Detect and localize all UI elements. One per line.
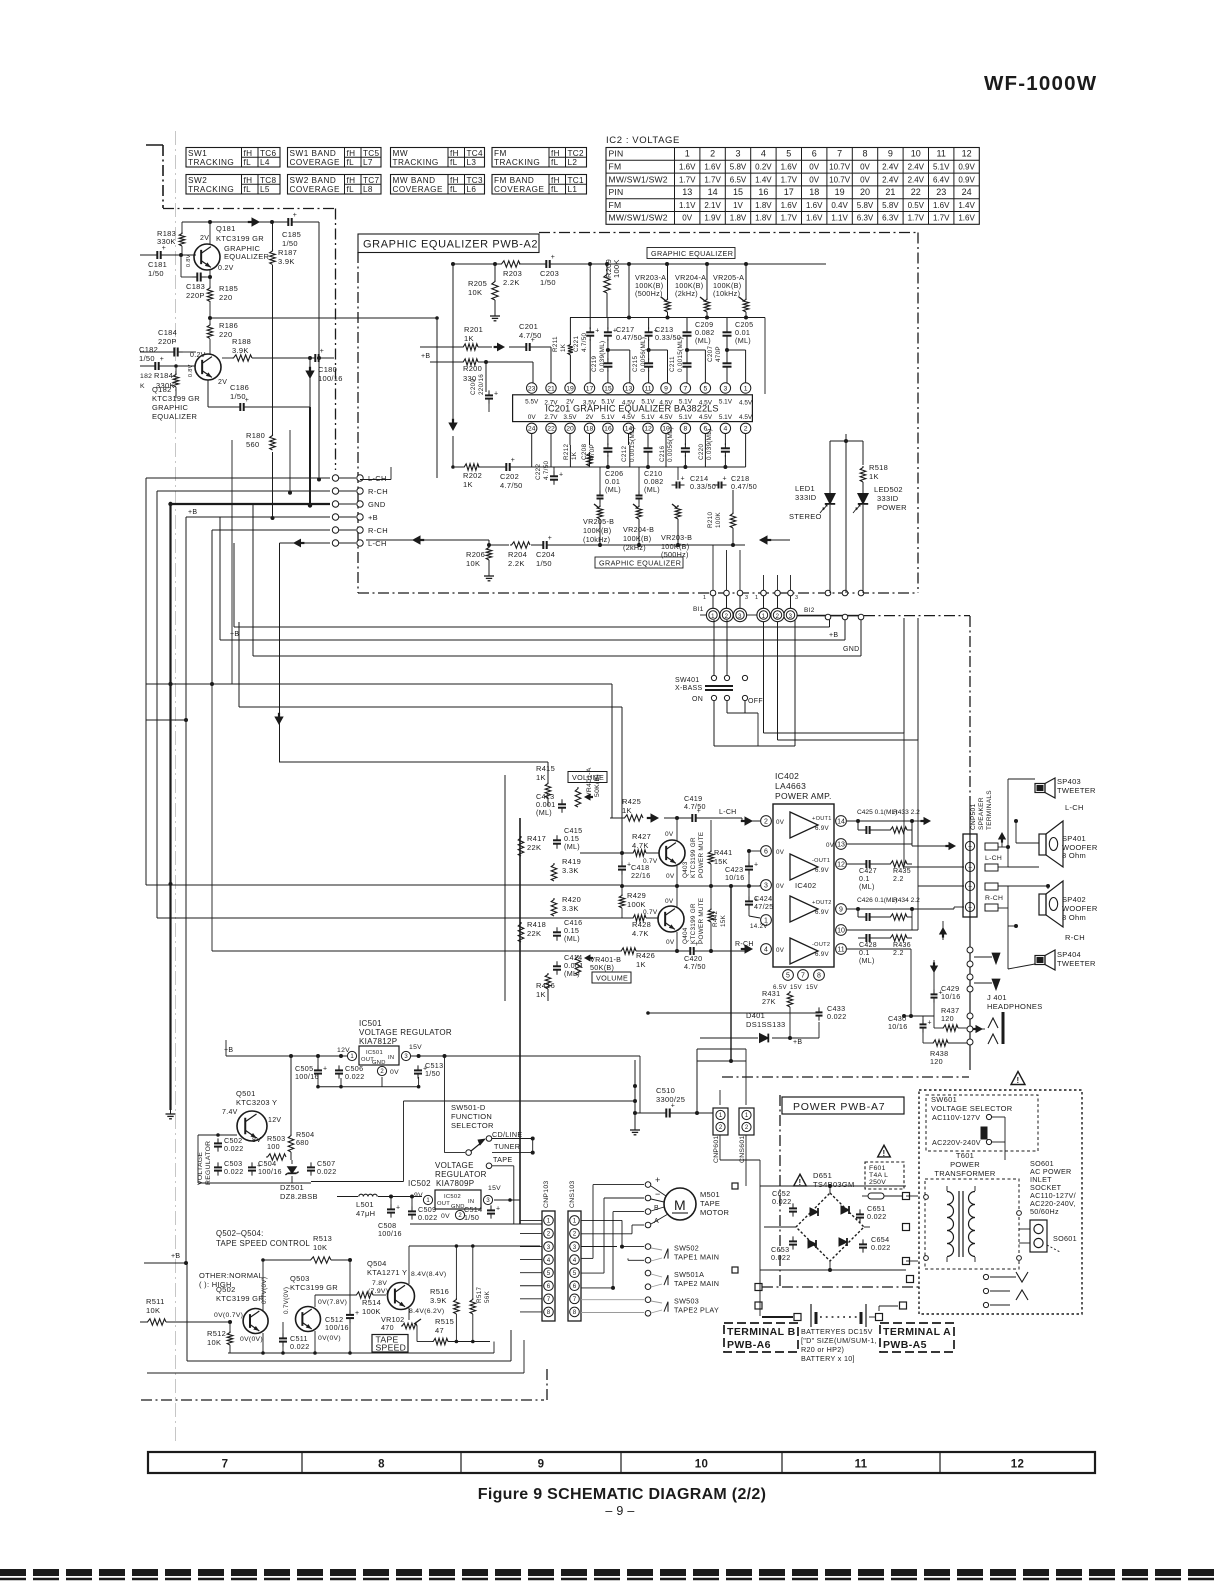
svg-text:0.5V: 0.5V <box>908 201 925 210</box>
fuse labels L-CH <box>985 843 1002 871</box>
capacitor C433 <box>816 1004 847 1021</box>
svg-text:24: 24 <box>962 187 972 197</box>
IC402 pin 9 <box>836 904 858 915</box>
svg-text:(10kHz): (10kHz) <box>583 535 610 544</box>
svg-text:0V: 0V <box>665 898 674 905</box>
svg-text:21: 21 <box>547 385 555 392</box>
resistor R188 <box>222 337 312 361</box>
capacitor C415 <box>553 826 582 851</box>
svg-text:4: 4 <box>573 1257 577 1264</box>
svg-text:+B: +B <box>793 1039 802 1046</box>
svg-text:BI2: BI2 <box>804 607 815 614</box>
wire bus h R-CH 2 <box>212 529 330 531</box>
wire bus h L-CH 2 <box>280 539 331 546</box>
svg-text:0V: 0V <box>665 831 674 838</box>
svg-text:1.8V: 1.8V <box>755 214 772 223</box>
resistor R426 <box>610 948 686 969</box>
svg-text:SW503: SW503 <box>674 1297 699 1306</box>
label AC110V-127V <box>932 1113 992 1122</box>
arrow down x279 <box>275 713 283 724</box>
svg-text:fH: fH <box>551 149 560 158</box>
svg-text:EQUALIZER: EQUALIZER <box>152 412 197 421</box>
svg-text:1.1V: 1.1V <box>831 214 848 223</box>
svg-text:+: + <box>320 348 324 355</box>
capacitor C180 <box>310 348 342 383</box>
svg-text:0V(0V): 0V(0V) <box>240 1336 263 1343</box>
wire L-CH arrow line <box>366 539 489 541</box>
IC201 bottom pin numbers <box>527 423 751 433</box>
svg-text:fL: fL <box>450 158 458 167</box>
svg-text:1: 1 <box>703 595 706 601</box>
connector CNP103 <box>542 1181 555 1322</box>
wire pin1 col <box>745 350 747 383</box>
svg-text:5.8V: 5.8V <box>882 201 899 210</box>
svg-text:TAPE: TAPE <box>700 1199 720 1208</box>
svg-text:R425: R425 <box>622 797 641 806</box>
svg-text:100/16: 100/16 <box>325 1323 349 1332</box>
svg-text:6.5V: 6.5V <box>730 175 747 184</box>
capacitor C203 <box>540 254 559 287</box>
svg-text:0.022: 0.022 <box>772 1197 792 1206</box>
svg-text:+: + <box>531 337 535 344</box>
svg-text:0.33/50: 0.33/50 <box>690 482 716 491</box>
svg-text:1.8V: 1.8V <box>755 201 772 210</box>
svg-text:0.47/50: 0.47/50 <box>731 482 757 491</box>
svg-text:50K(B): 50K(B) <box>594 774 601 797</box>
LED LED1 333ID STEREO <box>789 484 835 593</box>
svg-text:GND: GND <box>451 1204 465 1210</box>
svg-text:5: 5 <box>786 973 790 980</box>
wire sw601 leads <box>992 1117 1005 1160</box>
svg-text:2.1V: 2.1V <box>704 201 721 210</box>
resistor R185 <box>207 277 238 320</box>
svg-text:R184: R184 <box>154 371 173 380</box>
wire speaker mesh R <box>998 884 1050 969</box>
IC U402 LA4663 body <box>773 771 834 967</box>
svg-text:R185: R185 <box>219 284 238 293</box>
svg-text:1: 1 <box>711 614 715 620</box>
svg-text:R205: R205 <box>468 279 487 288</box>
svg-text:C202: C202 <box>500 472 519 481</box>
svg-text:L8: L8 <box>363 185 373 194</box>
label AC220V-240V <box>932 1127 992 1147</box>
svg-text:0.022: 0.022 <box>224 1167 244 1176</box>
svg-text:KTC3199 GR: KTC3199 GR <box>216 1294 264 1303</box>
capacitor C429 <box>931 984 961 1028</box>
wire J401 column <box>969 800 971 1070</box>
resistor R203 <box>500 261 522 287</box>
wire dash-dot right of BI2 <box>864 615 970 617</box>
svg-text:TRACKING: TRACKING <box>188 185 234 194</box>
svg-text:CNS601: CNS601 <box>739 1136 746 1164</box>
svg-text:R442: R442 <box>712 911 719 927</box>
svg-text:5.1V: 5.1V <box>719 414 733 421</box>
wire sw feeds <box>581 1220 644 1260</box>
socket SO601 <box>1030 1220 1077 1252</box>
svg-text:50K(B): 50K(B) <box>590 963 614 972</box>
svg-text:0V(7.8V): 0V(7.8V) <box>318 1299 347 1306</box>
switch SW501-D <box>445 1056 494 1169</box>
svg-text:L6: L6 <box>467 185 477 194</box>
svg-text:fL: fL <box>551 185 559 194</box>
svg-text:J 401: J 401 <box>987 993 1007 1002</box>
label GRAPHIC EQUALIZER (top) <box>647 248 735 259</box>
svg-text:0.022: 0.022 <box>345 1072 365 1081</box>
svg-text:+B: +B <box>368 513 378 522</box>
svg-text:+: + <box>293 212 297 219</box>
svg-text:6.9V: 6.9V <box>815 867 830 874</box>
svg-text:2.2K: 2.2K <box>508 559 525 568</box>
svg-text:2.2: 2.2 <box>893 950 904 957</box>
svg-text:R418: R418 <box>527 920 546 929</box>
svg-text:-OUT1: -OUT1 <box>812 858 830 864</box>
wire power top lines <box>697 1049 746 1113</box>
svg-text:0.4V: 0.4V <box>831 201 848 210</box>
svg-text:0V: 0V <box>682 214 692 223</box>
svg-text:L-CH: L-CH <box>368 539 387 548</box>
svg-text:R200: R200 <box>463 364 482 373</box>
svg-text:3: 3 <box>573 1244 577 1251</box>
svg-text:R206: R206 <box>466 550 485 559</box>
svg-text:10: 10 <box>911 149 921 159</box>
svg-text:COVERAGE: COVERAGE <box>290 185 340 194</box>
capacitor C184 <box>140 328 196 357</box>
svg-text:C216: C216 <box>659 446 666 462</box>
svg-text:15: 15 <box>733 187 743 197</box>
resistor R512 <box>207 1320 233 1353</box>
wire vertical x437 down <box>435 316 439 478</box>
svg-text:DZ8.2BSB: DZ8.2BSB <box>280 1192 318 1201</box>
svg-text:TUNER: TUNER <box>494 1142 520 1151</box>
label IC502 block <box>408 1161 487 1188</box>
svg-text:KTC3199 GR: KTC3199 GR <box>690 903 697 944</box>
svg-text:!: ! <box>1017 1076 1020 1085</box>
svg-text:R518: R518 <box>869 463 888 472</box>
svg-text:KTC3199 GR: KTC3199 GR <box>290 1283 338 1292</box>
wire dash-dot boundary horizontal <box>163 208 336 210</box>
svg-text:+: + <box>697 808 701 815</box>
svg-text:15: 15 <box>604 385 612 392</box>
resistor R210 <box>707 490 736 545</box>
svg-text:12: 12 <box>837 862 845 869</box>
transistor Q181 <box>186 222 269 277</box>
capacitor C423 <box>725 849 760 886</box>
svg-text:C220: C220 <box>698 444 705 460</box>
wire gnd rail y1101 <box>311 1077 635 1182</box>
label T601 transformer <box>934 1151 995 1178</box>
svg-text:8 Ohm: 8 Ohm <box>1062 913 1086 922</box>
capacitor C210 <box>636 467 664 505</box>
wire bus h R-CH <box>157 490 330 492</box>
svg-text:0V: 0V <box>528 414 537 421</box>
wire long h y1056 <box>520 1056 640 1113</box>
wire bottom rail y1373 <box>147 1340 524 1373</box>
capacitor C211 <box>669 337 705 383</box>
svg-text:fH: fH <box>551 176 560 185</box>
svg-text:5.1V: 5.1V <box>601 414 615 421</box>
warning triangle D651 <box>794 1174 807 1187</box>
svg-text:fH: fH <box>244 149 253 158</box>
svg-text:3.5V: 3.5V <box>583 400 597 407</box>
svg-text:R188: R188 <box>232 337 251 346</box>
svg-text:+B: +B <box>421 353 430 360</box>
svg-text:fH: fH <box>244 176 253 185</box>
resistor R431 <box>762 989 793 1007</box>
svg-text:10K: 10K <box>146 1306 160 1315</box>
svg-text:R201: R201 <box>464 325 483 334</box>
zone reference band <box>148 1452 1095 1473</box>
svg-text:3.9K: 3.9K <box>232 346 249 355</box>
svg-text:fL: fL <box>347 158 355 167</box>
svg-text:!: ! <box>799 1178 802 1187</box>
switch SW401 X-BASS <box>675 675 763 705</box>
svg-text:0V: 0V <box>809 163 819 172</box>
svg-text:1.6V: 1.6V <box>933 201 950 210</box>
svg-text:0V: 0V <box>441 1213 450 1220</box>
wire tape cluster rails <box>228 1342 494 1355</box>
svg-text:6: 6 <box>764 849 768 856</box>
svg-text:0.7V(0V): 0.7V(0V) <box>283 1287 290 1314</box>
label Q502-Q504 control <box>216 1229 310 1248</box>
svg-text:5.1V: 5.1V <box>679 414 693 421</box>
svg-text:REGULATOR: REGULATOR <box>435 1170 487 1179</box>
svg-text:18: 18 <box>809 187 819 197</box>
capacitor C222 <box>535 460 563 484</box>
svg-text:1.7V: 1.7V <box>679 175 696 184</box>
capacitor C512 <box>325 1260 359 1353</box>
svg-text:TERMINAL B: TERMINAL B <box>727 1326 796 1338</box>
svg-text:4.7/50: 4.7/50 <box>500 481 523 490</box>
svg-text:TS4B03GM: TS4B03GM <box>813 1180 855 1189</box>
svg-text:1.6V: 1.6V <box>781 201 798 210</box>
svg-text:4: 4 <box>547 1257 551 1264</box>
svg-text:12V: 12V <box>337 1047 350 1054</box>
svg-text:BI1: BI1 <box>693 606 704 613</box>
svg-text:14: 14 <box>708 187 718 197</box>
svg-text:(ML): (ML) <box>564 969 580 978</box>
svg-text:KIA7812P: KIA7812P <box>359 1037 397 1046</box>
svg-text:Q502–Q504:: Q502–Q504: <box>216 1229 264 1238</box>
svg-text:PWB-A5: PWB-A5 <box>883 1339 927 1351</box>
svg-text:TAPE2 MAIN: TAPE2 MAIN <box>674 1279 719 1288</box>
wire GE top bus <box>451 262 826 266</box>
svg-text:100/16: 100/16 <box>258 1167 282 1176</box>
wire bus h L-CH <box>146 467 391 480</box>
table MW tracking <box>391 148 485 168</box>
svg-text:330K: 330K <box>156 381 175 390</box>
svg-text:1.1V: 1.1V <box>679 201 696 210</box>
svg-text:+: + <box>754 896 758 903</box>
svg-text:50/60Hz: 50/60Hz <box>1030 1207 1059 1216</box>
svg-text:R419: R419 <box>562 857 581 866</box>
wire sel to amp <box>519 1014 521 1224</box>
svg-text:(10kHz): (10kHz) <box>713 289 740 298</box>
svg-text:6.9V: 6.9V <box>815 825 830 832</box>
svg-text:CNS103: CNS103 <box>569 1181 576 1209</box>
svg-text:0.022: 0.022 <box>317 1167 337 1176</box>
svg-text:14: 14 <box>837 819 845 826</box>
op-amp A2 <box>790 854 830 880</box>
svg-text:(ML): (ML) <box>859 884 875 891</box>
capacitor C213 <box>645 318 681 361</box>
capacitor C209 <box>683 318 715 361</box>
svg-text:3: 3 <box>789 614 793 620</box>
capacitor C186 <box>208 380 310 411</box>
svg-text:GND: GND <box>372 1060 386 1066</box>
svg-text:C180: C180 <box>318 365 337 374</box>
label 0.7V(0V) a <box>261 1277 268 1304</box>
resistor R513 <box>261 1234 352 1312</box>
svg-text:+B: +B <box>224 1047 233 1054</box>
svg-text:TC1: TC1 <box>568 176 585 185</box>
capacitor C182 <box>139 345 195 370</box>
svg-text:5: 5 <box>786 149 791 159</box>
connector CNP601 <box>713 1108 728 1163</box>
svg-text:R511: R511 <box>146 1297 165 1306</box>
svg-text:C203: C203 <box>540 269 559 278</box>
svg-text:20: 20 <box>566 426 574 433</box>
table SW1 tracking <box>186 148 280 168</box>
transistor Q501 <box>222 1089 281 1144</box>
svg-text:1/50: 1/50 <box>536 559 552 568</box>
svg-text:100: 100 <box>267 1142 280 1151</box>
svg-text:1K: 1K <box>463 480 473 489</box>
svg-text:CNP103: CNP103 <box>543 1181 550 1209</box>
svg-text:8.4V(8.4V): 8.4V(8.4V) <box>411 1271 447 1278</box>
caption page number <box>605 1504 634 1518</box>
label Q403 vertical <box>682 832 705 878</box>
speaker SP401 woofer <box>1039 821 1098 867</box>
capacitor C204 <box>536 535 555 568</box>
svg-text:fL: fL <box>450 185 458 194</box>
IC402 pin 6 <box>761 846 785 857</box>
ground under R205 <box>490 312 500 321</box>
svg-text:4.5V: 4.5V <box>739 414 753 421</box>
svg-text:5.5V: 5.5V <box>525 398 539 405</box>
jack J401 headphones <box>974 993 1043 1044</box>
capacitor C427 / resistor R435 <box>858 860 912 891</box>
svg-text:+: + <box>511 457 515 464</box>
svg-text:7.4V: 7.4V <box>222 1109 238 1116</box>
svg-text:19: 19 <box>566 385 574 392</box>
svg-text:9: 9 <box>538 1459 545 1471</box>
capacitor C510 <box>635 1086 713 1118</box>
wire +B lower <box>144 1253 187 1263</box>
svg-text:1K: 1K <box>536 773 546 782</box>
svg-text:1/50: 1/50 <box>464 1213 479 1222</box>
svg-text:+: + <box>671 1103 675 1110</box>
svg-text:0V: 0V <box>860 163 870 172</box>
svg-text:MW: MW <box>393 149 409 158</box>
svg-text:BATTERY x 10]: BATTERY x 10] <box>801 1354 855 1363</box>
svg-text:(ML): (ML) <box>735 336 751 345</box>
svg-text:R204: R204 <box>508 550 527 559</box>
capacitor C201 <box>509 322 551 383</box>
svg-text:fH: fH <box>347 149 356 158</box>
svg-text:2V: 2V <box>218 379 227 386</box>
svg-text:AC220V-240V: AC220V-240V <box>932 1138 981 1147</box>
svg-text:(ML): (ML) <box>859 958 875 965</box>
svg-text:T4A L: T4A L <box>869 1172 888 1179</box>
svg-text:8: 8 <box>817 973 821 980</box>
svg-text:333ID: 333ID <box>795 493 817 502</box>
potentiometer VR204-B <box>623 504 654 552</box>
svg-text:R436: R436 <box>893 942 911 949</box>
svg-text:1V: 1V <box>733 201 743 210</box>
svg-text:KTC3203 Y: KTC3203 Y <box>236 1098 277 1107</box>
op-amp A4 <box>790 938 830 964</box>
svg-text:1/50: 1/50 <box>282 239 298 248</box>
svg-text:220: 220 <box>219 330 232 339</box>
svg-text:COVERAGE: COVERAGE <box>290 158 340 167</box>
svg-text:KTA1271 Y: KTA1271 Y <box>367 1268 407 1277</box>
potentiometer VR205-A <box>713 264 749 318</box>
svg-text:6.9V: 6.9V <box>815 909 830 916</box>
svg-text:R415: R415 <box>536 764 555 773</box>
svg-text:1/50: 1/50 <box>540 278 556 287</box>
svg-text:FM: FM <box>494 149 507 158</box>
transformer T601 <box>925 1179 1019 1269</box>
arrow bus left <box>760 536 790 544</box>
wire speaker mesh L <box>998 779 1039 867</box>
warning triangle F601 <box>878 1145 891 1158</box>
svg-text:FM: FM <box>609 162 622 172</box>
svg-text:0.039(ML): 0.039(ML) <box>706 429 713 460</box>
svg-text:0V: 0V <box>776 849 785 856</box>
svg-text:fL: fL <box>244 158 252 167</box>
svg-text:X-BASS: X-BASS <box>675 685 703 692</box>
svg-text:1.9V: 1.9V <box>704 214 721 223</box>
resistor R417 <box>518 834 546 856</box>
svg-text:17: 17 <box>586 385 594 392</box>
svg-text:2.4V: 2.4V <box>882 175 899 184</box>
svg-text:5: 5 <box>704 385 708 392</box>
wire dash-dot boundary vertical <box>335 209 337 471</box>
svg-text:0.1: 0.1 <box>859 876 870 883</box>
svg-text:IC501: IC501 <box>366 1050 383 1056</box>
svg-text:POWER: POWER <box>950 1160 980 1169</box>
svg-text:3: 3 <box>745 595 748 601</box>
wire SW401 leads <box>714 620 795 746</box>
svg-text:0.022: 0.022 <box>771 1253 791 1262</box>
wire page border top-left <box>146 145 163 208</box>
svg-text:K: K <box>140 383 145 390</box>
table MW band coverage <box>391 175 485 195</box>
svg-text:+: + <box>754 861 758 868</box>
svg-text:TRANSFORMER: TRANSFORMER <box>934 1169 995 1178</box>
IC402 pin 12 <box>836 859 858 870</box>
connector CNS601 <box>739 1108 754 1163</box>
svg-text:L501: L501 <box>356 1200 374 1209</box>
svg-text:L7: L7 <box>363 158 373 167</box>
capacitor C513 <box>414 1061 443 1079</box>
capacitor C419 <box>664 794 706 822</box>
svg-text:C427: C427 <box>859 868 877 875</box>
svg-text:C222: C222 <box>535 464 542 480</box>
svg-text:3: 3 <box>795 595 798 601</box>
capacitor C507 <box>307 1159 337 1176</box>
svg-text:3: 3 <box>738 614 742 620</box>
svg-text:2.2K: 2.2K <box>503 278 520 287</box>
capacitor C207 <box>707 346 746 383</box>
svg-text:7: 7 <box>684 385 688 392</box>
wire dash-dot bottom-left boundary <box>141 1369 547 1400</box>
svg-text:+: + <box>423 1065 427 1072</box>
capacitor C208 <box>581 443 612 467</box>
svg-text:(500Hz): (500Hz) <box>635 289 663 298</box>
svg-text:560: 560 <box>246 440 259 449</box>
IC201 top pin numbers <box>527 383 751 393</box>
